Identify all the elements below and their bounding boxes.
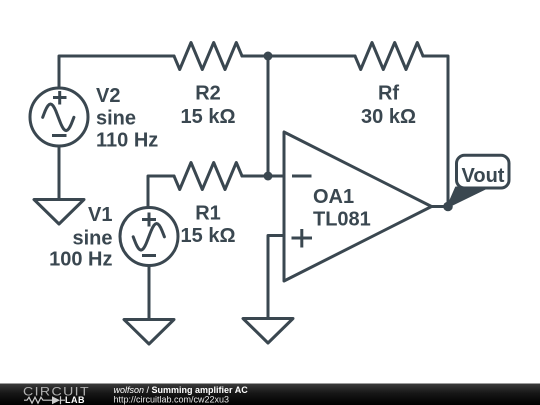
- source V2 minus: [52, 134, 67, 137]
- svg-text:110 Hz: 110 Hz: [96, 130, 158, 152]
- ground below op-amp: [243, 319, 293, 344]
- svg-text:100 Hz: 100 Hz: [49, 249, 112, 271]
- wire node B to op-amp inverting input: [268, 175, 284, 178]
- source V1 sine mark: [133, 224, 164, 251]
- svg-text:15 kΩ: 15 kΩ: [181, 106, 236, 128]
- source V2 circle: [30, 88, 88, 146]
- source V1 plus: [142, 213, 156, 227]
- source V2 sine mark: [43, 104, 74, 131]
- logo diode triangle: [52, 396, 60, 404]
- svg-text:Rf: Rf: [378, 83, 399, 105]
- ground below V1: [124, 320, 174, 345]
- svg-text:R1: R1: [195, 203, 221, 225]
- wire V2 bottom to ground: [58, 146, 61, 200]
- resistor Rf: [355, 43, 423, 70]
- op-amp plus input mark: [292, 229, 313, 248]
- resistor R2: [174, 43, 242, 70]
- node B junction dot: [264, 172, 273, 181]
- Vout flag tail: [448, 188, 487, 208]
- svg-text:sine: sine: [96, 107, 136, 129]
- svg-text:OA1: OA1: [313, 186, 354, 208]
- output node junction dot: [443, 202, 453, 212]
- source V1 minus: [142, 254, 156, 257]
- op-amp OA1 triangle: [284, 132, 432, 281]
- svg-text:30 kΩ: 30 kΩ: [361, 106, 416, 128]
- ground below V2: [34, 200, 84, 225]
- wire R1 to node B: [242, 175, 268, 178]
- wire V1 top to R1: [148, 176, 174, 207]
- wire V2 top to R2: [59, 56, 174, 88]
- node A junction dot: [264, 52, 273, 61]
- svg-text:V1: V1: [88, 204, 112, 226]
- svg-text:LAB: LAB: [65, 395, 85, 405]
- wire node A down to node B: [267, 56, 270, 176]
- svg-text:R2: R2: [195, 83, 221, 105]
- Vout flag box: [457, 155, 510, 188]
- svg-text:TL081: TL081: [313, 209, 371, 231]
- wire V1 bottom to ground: [148, 266, 151, 320]
- source V2 plus: [53, 91, 67, 105]
- svg-text:15 kΩ: 15 kΩ: [181, 225, 236, 247]
- svg-text:V2: V2: [96, 85, 120, 107]
- logo resistor squiggle and diode: [24, 396, 65, 404]
- resistor R1: [174, 163, 242, 190]
- svg-text:http://circuitlab.com/cw22xu3: http://circuitlab.com/cw22xu3: [114, 394, 230, 404]
- wire Rf to output node: [423, 56, 448, 206]
- svg-text:Vout: Vout: [462, 165, 505, 187]
- wire op-amp output to node: [432, 205, 449, 208]
- source V1 circle: [120, 208, 178, 266]
- wire op-amp noninverting input to ground: [268, 236, 284, 319]
- wire node A to Rf: [268, 55, 355, 58]
- svg-text:sine: sine: [72, 228, 112, 250]
- op-amp minus input mark: [292, 175, 312, 178]
- wire R2 to node A: [242, 55, 268, 58]
